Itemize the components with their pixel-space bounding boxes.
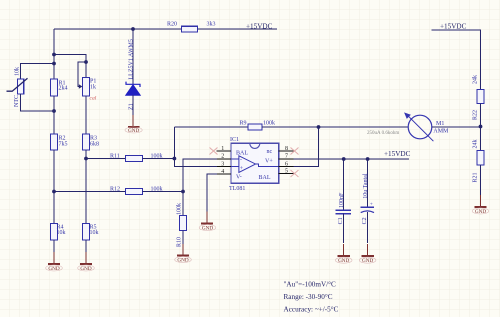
svg-text:R20: R20 (167, 22, 177, 28)
pin 2 (217, 154, 231, 160)
capacitor C2 tantal (361, 159, 374, 243)
label cal (90, 96, 97, 102)
svg-text:GND: GND (177, 257, 188, 263)
junction dot R12 left (52, 190, 56, 194)
resistor R9 (240, 120, 276, 130)
junction dot R12/pin2 column (181, 190, 185, 194)
svg-text:Range: -30-90°C: Range: -30-90°C (284, 293, 333, 301)
svg-text:+: + (240, 166, 244, 172)
wire R12 row right (143, 191, 184, 193)
no-connect X pin1 (210, 148, 218, 155)
wire NTC bottom (21, 94, 55, 111)
wire meter row left (319, 126, 408, 128)
wire R4-gnd (53, 240, 55, 252)
svg-text:10u Tantal: 10u Tantal (363, 173, 369, 199)
resistor R21 (472, 140, 484, 183)
wire R22-R21 (480, 104, 482, 151)
svg-text:10k: 10k (57, 230, 66, 236)
svg-text:2: 2 (221, 154, 224, 160)
wire R10-gnd (182, 231, 184, 245)
wire R11 row left (86, 158, 126, 160)
svg-text:GND: GND (48, 266, 59, 272)
wire top rail (54, 28, 277, 30)
wire pin4 net (207, 174, 217, 212)
junction dot C1 (342, 157, 346, 161)
svg-text:6k8: 6k8 (90, 142, 99, 148)
svg-text:24k: 24k (472, 75, 478, 84)
svg-text:6: 6 (285, 161, 288, 167)
svg-text:TL081: TL081 (229, 186, 245, 192)
node +15VDC mid (384, 150, 411, 158)
svg-text:GND: GND (202, 225, 213, 231)
svg-text:GND: GND (80, 266, 91, 272)
pin 7 (279, 154, 294, 160)
wire P1 wiper (78, 62, 86, 87)
junction dot R11 left (84, 157, 88, 161)
wire R1-R2 (53, 96, 55, 134)
no-connect X pin8 (291, 148, 299, 155)
svg-text:+15VDC: +15VDC (440, 22, 467, 30)
svg-text:IC1: IC1 (230, 137, 239, 143)
svg-text:"Au"=-100mV/°C: "Au"=-100mV/°C (284, 280, 337, 288)
svg-text:+: + (370, 201, 373, 207)
junction dot C2 (366, 157, 370, 161)
pin 8 (279, 146, 294, 152)
wire zener top (132, 29, 134, 84)
svg-text:1: 1 (221, 146, 224, 152)
svg-text:+15VDC: +15VDC (246, 22, 273, 30)
svg-text:GND: GND (128, 128, 139, 134)
resistor R10 (176, 203, 186, 247)
wire NTC top (21, 64, 55, 80)
resistor R22 (472, 75, 484, 120)
svg-text:R10: R10 (176, 237, 182, 247)
no-connect X pin5 (291, 170, 299, 177)
svg-text:3: 3 (221, 161, 224, 167)
svg-text:BAL: BAL (236, 150, 248, 156)
wire R9 row left (174, 126, 248, 128)
svg-text:M1: M1 (436, 121, 444, 127)
wire +15VDC rail (pin7) (293, 158, 409, 160)
svg-text:3k3: 3k3 (207, 22, 216, 28)
svg-text:2k4: 2k4 (59, 85, 68, 91)
op-amp IC1 TL081 (229, 137, 279, 192)
junction dot NTC bottom (52, 109, 56, 113)
wire feedback riser and pin3 (174, 127, 217, 167)
note line 1 (284, 280, 337, 288)
svg-text:1k: 1k (90, 85, 96, 91)
svg-text:C1: C1 (338, 217, 344, 224)
ground G2 (78, 252, 95, 272)
wire P1 branch (54, 55, 86, 78)
svg-text:7k5: 7k5 (59, 142, 68, 148)
svg-text:BAL: BAL (259, 175, 271, 181)
ground G7 (359, 244, 376, 264)
potentiometer P1 (79, 78, 97, 97)
svg-text:100nF: 100nF (339, 192, 345, 208)
thermistor NTC (7, 67, 28, 107)
svg-text:V-: V- (236, 174, 242, 180)
svg-text:5: 5 (285, 168, 288, 174)
svg-text:-: - (240, 157, 242, 163)
resistor R11 (110, 153, 163, 161)
resistor R3 (83, 134, 100, 150)
pin 1 (217, 146, 232, 152)
wire left column upper (53, 29, 55, 79)
junction dot output riser (317, 125, 321, 129)
wire R11 row right (143, 158, 175, 160)
note line 2 (284, 293, 333, 301)
wire output pin6 riser (293, 127, 318, 167)
pin 4 (217, 169, 231, 175)
junction dot wiper (84, 60, 88, 64)
svg-text:R22: R22 (472, 110, 478, 120)
svg-text:R21: R21 (472, 172, 478, 182)
svg-text:GND: GND (362, 258, 373, 264)
svg-text:R11: R11 (110, 153, 120, 159)
svg-text:P1: P1 (90, 78, 96, 84)
svg-text:nc: nc (267, 149, 273, 155)
junction dot P1 branch (52, 53, 56, 57)
wire meter row right (432, 126, 480, 128)
pin 5 (279, 168, 294, 174)
wire R5-gnd (85, 240, 87, 252)
capacitor C1 (336, 159, 351, 243)
ground G3 (125, 115, 142, 134)
resistor R1 (51, 79, 68, 96)
pin 3 (217, 161, 231, 167)
resistor R4 (51, 224, 66, 241)
wire zener bottom (132, 95, 134, 115)
svg-text:cal: cal (90, 96, 97, 102)
svg-text:10k: 10k (90, 230, 99, 236)
svg-text:7: 7 (285, 154, 288, 160)
junction dot NTC branch (52, 62, 56, 66)
svg-text:100k: 100k (263, 120, 275, 126)
label meter rating (367, 131, 399, 136)
svg-text:GND: GND (475, 209, 486, 215)
resistor R5 (83, 224, 99, 241)
pin 6 (279, 161, 294, 167)
resistor R12 (110, 186, 163, 194)
wire R9 row right (262, 126, 319, 128)
ground G6 (335, 244, 352, 264)
svg-text:4: 4 (221, 169, 224, 175)
svg-text:R12: R12 (110, 186, 120, 192)
node +15VDC top (246, 22, 273, 30)
ground G1 (46, 252, 63, 272)
wire R21-gnd (480, 165, 482, 195)
junction dot meter/R21 (479, 125, 483, 129)
node top-rail / diode junction (131, 27, 135, 31)
ground G4 (199, 212, 216, 232)
svg-text:Z1: Z1 (129, 103, 135, 110)
svg-text:+15VDC: +15VDC (384, 150, 411, 158)
svg-text:GND: GND (338, 258, 349, 264)
note line 3 (284, 306, 339, 314)
zener diode Z1 (126, 39, 140, 110)
svg-text:100k: 100k (176, 203, 182, 215)
ground G8 (472, 195, 489, 215)
ammeter M1 (405, 113, 449, 141)
wire R12 row left (54, 191, 126, 193)
wire R2-R4 (53, 150, 55, 224)
wire R3-R5 (85, 150, 87, 224)
svg-text:250uA 0.6kohm: 250uA 0.6kohm (367, 131, 399, 136)
wire pin2 net (183, 159, 217, 216)
resistor R20 (167, 22, 216, 32)
svg-text:10k: 10k (14, 67, 20, 76)
svg-text:Accuracy: ~+/-5°C: Accuracy: ~+/-5°C (284, 306, 339, 314)
wire right column top (432, 30, 481, 90)
svg-text:R9: R9 (240, 120, 247, 126)
junction dot R11/R9 (173, 157, 177, 161)
svg-text:LLZ5V1 AWM5: LLZ5V1 AWM5 (129, 39, 135, 79)
svg-text:8: 8 (285, 146, 288, 152)
svg-text:NTC: NTC (14, 95, 20, 107)
wire P1-R3 (85, 96, 87, 134)
resistor R2 (51, 134, 68, 150)
ground G5 (175, 244, 192, 263)
svg-text:V+: V+ (265, 158, 273, 164)
node +15VDC top right (440, 22, 467, 30)
svg-text:24k: 24k (472, 140, 478, 149)
svg-text:AMM: AMM (433, 129, 449, 135)
